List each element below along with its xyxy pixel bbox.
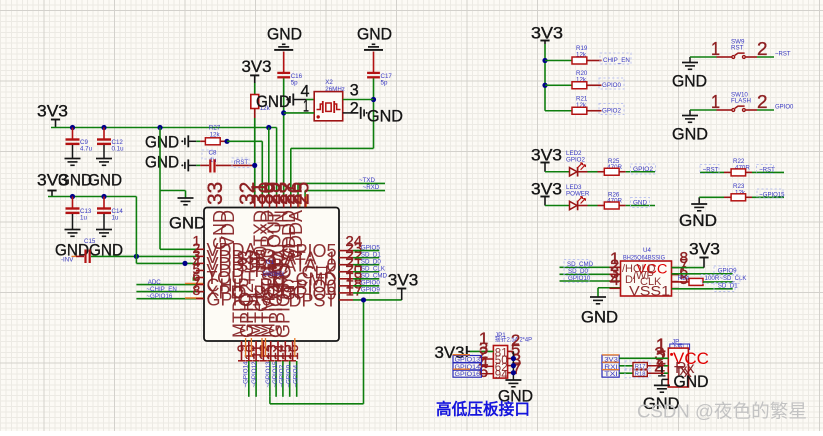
svg-text:1u: 1u bbox=[112, 215, 119, 222]
svg-text:GND: GND bbox=[633, 201, 648, 207]
svg-text:~GPIO14: ~GPIO14 bbox=[243, 361, 250, 388]
svg-text:R27: R27 bbox=[209, 125, 221, 132]
svg-text:~RST: ~RST bbox=[759, 167, 775, 173]
svg-text:GPIO9: GPIO9 bbox=[718, 268, 737, 275]
svg-text:5p: 5p bbox=[381, 80, 388, 87]
svg-text:GPIO2: GPIO2 bbox=[566, 156, 585, 163]
svg-text:GND: GND bbox=[169, 215, 206, 233]
svg-text:~GPIO15: ~GPIO15 bbox=[759, 192, 785, 198]
svg-text:GND: GND bbox=[145, 154, 179, 172]
svg-text:FLASH: FLASH bbox=[731, 98, 751, 105]
svg-text:GPIO0: GPIO0 bbox=[602, 82, 621, 89]
svg-text:GND: GND bbox=[367, 108, 403, 126]
svg-text:GND: GND bbox=[267, 26, 302, 44]
svg-text:U4: U4 bbox=[643, 247, 651, 254]
svg-text:VDD: VDD bbox=[218, 210, 238, 248]
svg-text:0.1u: 0.1u bbox=[112, 146, 125, 153]
svg-text:GND: GND bbox=[58, 172, 92, 190]
svg-text:2: 2 bbox=[350, 99, 359, 118]
svg-text:GND: GND bbox=[672, 126, 708, 144]
svg-text:~GPIO12: ~GPIO12 bbox=[251, 361, 258, 388]
svg-text:5p: 5p bbox=[291, 80, 298, 87]
svg-text:~SD_CLK: ~SD_CLK bbox=[720, 276, 747, 282]
svg-text:C15: C15 bbox=[84, 238, 96, 245]
svg-text:3V3: 3V3 bbox=[242, 58, 272, 76]
svg-text:GND: GND bbox=[672, 73, 707, 91]
svg-text:RST: RST bbox=[731, 45, 744, 52]
svg-text:GPIO16: GPIO16 bbox=[455, 371, 481, 378]
svg-text:2: 2 bbox=[757, 92, 768, 112]
svg-text:GND: GND bbox=[145, 134, 179, 152]
svg-text:SD_D1: SD_D1 bbox=[361, 251, 382, 258]
svg-text:1: 1 bbox=[711, 39, 720, 59]
svg-text:3: 3 bbox=[350, 81, 359, 100]
svg-text:ADC: ADC bbox=[148, 279, 162, 286]
svg-text:R24: R24 bbox=[678, 275, 690, 282]
svg-text:~GPIO13: ~GPIO13 bbox=[265, 361, 272, 388]
svg-text:U1: U1 bbox=[266, 259, 274, 266]
svg-text:3V3: 3V3 bbox=[388, 271, 419, 289]
svg-text:~GPIO4: ~GPIO4 bbox=[293, 364, 300, 387]
svg-text:GND: GND bbox=[88, 172, 122, 190]
svg-text:GPIO2: GPIO2 bbox=[602, 107, 621, 114]
svg-text:GPIO5: GPIO5 bbox=[273, 283, 293, 338]
svg-text:VDDA: VDDA bbox=[286, 210, 306, 260]
svg-text:4.7u: 4.7u bbox=[80, 146, 93, 153]
svg-text:SD_CMD: SD_CMD bbox=[361, 273, 388, 280]
svg-text:~RXD: ~RXD bbox=[363, 184, 380, 191]
svg-text:~RST: ~RST bbox=[775, 52, 791, 58]
svg-text:VSS1: VSS1 bbox=[629, 284, 670, 299]
svg-text:rRST: rRST bbox=[234, 160, 248, 166]
svg-text:16: 16 bbox=[285, 344, 301, 360]
svg-text:~TXD: ~TXD bbox=[359, 177, 376, 184]
svg-text:-INV: -INV bbox=[61, 257, 74, 264]
svg-text:1: 1 bbox=[711, 92, 720, 112]
svg-text:SD_CLK: SD_CLK bbox=[361, 266, 386, 273]
svg-text:6: 6 bbox=[479, 362, 488, 381]
svg-text:2: 2 bbox=[757, 39, 768, 59]
svg-text:~CHIP_EN: ~CHIP_EN bbox=[146, 286, 176, 293]
svg-text:GND: GND bbox=[256, 93, 290, 111]
svg-text:GPIO0: GPIO0 bbox=[361, 280, 380, 287]
svg-text:33: 33 bbox=[204, 182, 227, 205]
svg-text:~GPIO0: ~GPIO0 bbox=[285, 364, 292, 387]
svg-text:TXI: TXI bbox=[604, 371, 618, 378]
svg-text:25: 25 bbox=[291, 182, 314, 205]
svg-text:DPST: DPST bbox=[288, 291, 336, 311]
svg-text:CSDN @夜色的繁星: CSDN @夜色的繁星 bbox=[637, 401, 807, 422]
svg-text:GND: GND bbox=[679, 212, 717, 230]
svg-text:~GPIO16: ~GPIO16 bbox=[146, 293, 173, 300]
svg-text:8: 8 bbox=[193, 282, 201, 298]
svg-text:GPIO9: GPIO9 bbox=[361, 287, 380, 294]
svg-text:3V3: 3V3 bbox=[37, 103, 68, 121]
svg-text:GPIO2: GPIO2 bbox=[633, 167, 654, 173]
svg-text:1u: 1u bbox=[80, 215, 87, 222]
svg-text:POWER: POWER bbox=[566, 190, 590, 197]
svg-text:GPIO0: GPIO0 bbox=[775, 105, 794, 111]
svg-text:SD_D0: SD_D0 bbox=[361, 259, 382, 266]
svg-text:高低压板接口: 高低压板接口 bbox=[436, 400, 530, 419]
svg-text:ESP8266EX: ESP8266EX bbox=[263, 271, 284, 278]
svg-text:CHIP_EN: CHIP_EN bbox=[603, 57, 630, 64]
svg-text:GND: GND bbox=[357, 26, 392, 44]
svg-text:GND: GND bbox=[581, 309, 618, 327]
svg-text:GPIO5: GPIO5 bbox=[361, 244, 380, 251]
svg-text:R18: R18 bbox=[635, 371, 646, 377]
svg-text:3V3: 3V3 bbox=[689, 241, 720, 259]
svg-text:4: 4 bbox=[610, 271, 619, 289]
svg-text:100R: 100R bbox=[705, 275, 720, 282]
svg-text:17: 17 bbox=[346, 282, 363, 299]
svg-text:GND: GND bbox=[674, 373, 709, 391]
